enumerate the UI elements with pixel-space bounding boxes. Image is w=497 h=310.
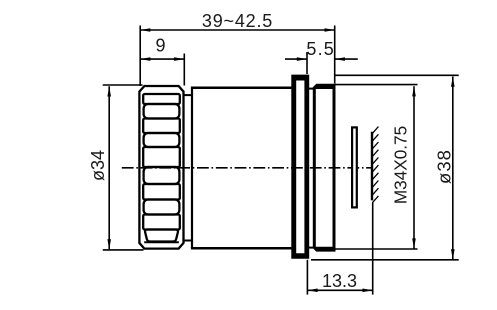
thread hatch ticks: [372, 127, 378, 203]
arrowhead right of 5.5 (pointing left): [335, 57, 345, 61]
dimension line 9: [140, 58, 184, 60]
extension line right (knurl right face): [183, 54, 185, 86]
knurl grip pills: [143, 94, 180, 242]
extension line top (flange top): [336, 74, 459, 76]
knurled ring body outline: [139, 86, 183, 249]
svg-text:ø34: ø34: [88, 150, 108, 181]
svg-text:M34X0.75: M34X0.75: [391, 126, 411, 204]
arrowhead left of 39~42.5: [140, 28, 150, 32]
extension line bottom (thread major bottom): [335, 248, 418, 250]
arrowhead left of 9: [140, 57, 150, 61]
extension line left (knurl left face): [139, 26, 141, 87]
knurl top chamfer line: [144, 93, 179, 95]
arrowhead left of 13.3: [307, 289, 317, 293]
dimension line diameter 38: [452, 77, 454, 260]
arrowhead right of 9: [174, 57, 184, 61]
main barrel cylinder: [191, 88, 315, 249]
svg-text:9: 9: [155, 36, 165, 56]
svg-text:39~42.5: 39~42.5: [202, 11, 273, 31]
flange (thick rim): [291, 75, 309, 259]
dimension tail left of 5.5: [285, 58, 307, 60]
arrowhead top of diameter 34: [107, 86, 111, 96]
extension line right (rear ring right face): [334, 26, 336, 84]
extension line top (knurl top): [103, 84, 143, 86]
arrowhead left of 5.5 (pointing right): [297, 57, 307, 61]
arrowhead bottom of diameter 34: [107, 239, 111, 249]
svg-text:ø38: ø38: [434, 149, 455, 184]
extension line bottom (flange bottom): [311, 259, 459, 261]
internal thread line M34: [371, 132, 373, 201]
dimension tail right of 5.5: [335, 58, 358, 60]
svg-text:13.3: 13.3: [322, 271, 357, 291]
dimension line diameter 34: [108, 86, 110, 249]
barrel edge between flange and ring: [309, 88, 315, 90]
arrowhead bottom of diameter 38: [451, 249, 455, 259]
svg-text:5.5: 5.5: [306, 39, 335, 59]
arrowhead bottom of M34X0.75: [412, 238, 416, 248]
extension line left (flange right face): [306, 52, 308, 74]
arrowhead right of 39~42.5: [325, 28, 335, 32]
internal thread relief slot: [352, 127, 357, 207]
knurl bottom chamfer line: [144, 241, 179, 243]
arrowhead top of M34X0.75: [412, 86, 416, 96]
extension line top (thread major top): [335, 84, 418, 86]
arrowhead top of diameter 38: [451, 77, 455, 87]
arrowhead right of 13.3: [363, 289, 373, 293]
extension line bottom (knurl bottom): [103, 249, 144, 251]
dimension line 39~42.5: [140, 29, 335, 31]
dimension line thread M34X0.75: [413, 86, 415, 248]
extension line left (flange right face, bottom): [306, 260, 308, 295]
neck groove between knurl and barrel: [184, 95, 193, 240]
rear ring (thick wall, chamfered): [313, 84, 336, 252]
extension line right (thread start plane): [372, 203, 374, 295]
centerline axis: [122, 167, 372, 169]
dimension line 13.3: [307, 289, 372, 291]
